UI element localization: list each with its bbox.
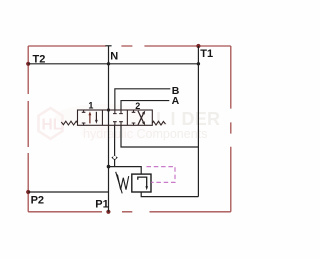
svg-text:A: A <box>172 95 180 107</box>
crossed arrows position 2 <box>138 111 145 126</box>
check valve CV1 <box>111 155 117 160</box>
node N junction <box>107 62 110 65</box>
svg-text:2: 2 <box>135 101 140 111</box>
pilot line (magenta dashed) <box>147 167 176 183</box>
port dot P2 <box>26 190 30 194</box>
wire tank return from valve <box>121 125 198 147</box>
node valve inlet junction <box>107 108 110 111</box>
svg-text:1: 1 <box>88 100 93 110</box>
svg-text:HL: HL <box>42 117 63 134</box>
watermark small text <box>83 127 207 141</box>
spring left <box>61 121 77 125</box>
relief valve internal arrow <box>138 177 148 190</box>
wire A <box>121 101 169 110</box>
svg-text:LIDER: LIDER <box>156 109 220 129</box>
spring right <box>152 121 165 125</box>
svg-text:P1: P1 <box>95 199 108 211</box>
wire relief outlet to tank <box>141 192 198 197</box>
port dot T2 <box>26 62 30 66</box>
svg-text:T1: T1 <box>200 48 213 60</box>
svg-text:P2: P2 <box>31 194 44 206</box>
node T1 junction <box>197 62 200 65</box>
port dot P1 <box>106 210 110 214</box>
watermark hexagon logo <box>39 108 63 139</box>
wire pump to relief inlet <box>108 167 141 175</box>
svg-text:hydraulic Components: hydraulic Components <box>83 127 207 141</box>
node pump junction <box>107 165 111 169</box>
wire N vertical down to P1 <box>108 46 110 212</box>
watermark pink tint behind valve <box>55 104 160 140</box>
spool center position blocked ports <box>113 110 123 125</box>
relief valve RV1 box <box>132 174 151 192</box>
arrow down position 1 <box>95 112 98 124</box>
wire B <box>115 89 170 110</box>
N plugged cap <box>105 45 111 47</box>
spool position 1 symbols <box>82 110 86 125</box>
wire T1 vertical <box>197 46 199 197</box>
watermark big text LIDER <box>156 109 220 129</box>
svg-text:T2: T2 <box>33 53 46 65</box>
port dot T1 <box>196 44 200 48</box>
wire T2 to T1 drop <box>28 63 198 65</box>
red dashed enclosure border <box>28 46 231 212</box>
relief valve adjustable spring <box>116 172 129 194</box>
spool position 2 blocked port <box>132 110 136 125</box>
directional valve body V1 <box>78 110 153 125</box>
svg-text:N: N <box>110 50 118 62</box>
wire P2 <box>28 191 108 193</box>
wire check valve branch <box>114 125 116 166</box>
arrow up (red) position 1 <box>89 111 92 123</box>
